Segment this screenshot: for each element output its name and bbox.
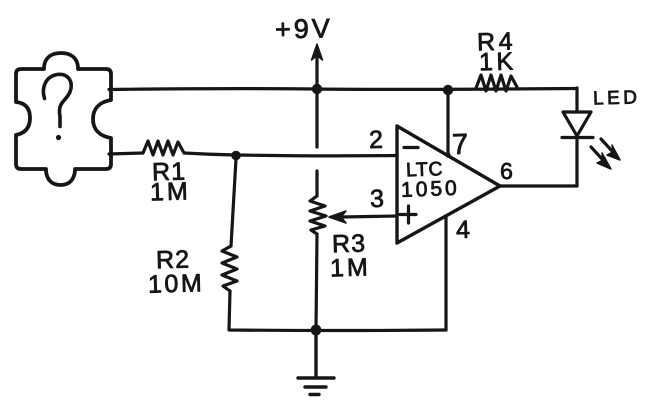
sensor U? (mystery puzzle-piece)	[16, 53, 111, 185]
svg-text:1M: 1M	[330, 253, 371, 282]
potentiometer R3 (element)	[310, 196, 326, 234]
resistor R2	[222, 246, 237, 291]
wire: LED cathode down to pin 6 wire	[575, 139, 578, 186]
node: ground junction	[311, 325, 322, 336]
svg-text:7: 7	[452, 129, 469, 161]
node: pin 7 junction on top rail	[443, 85, 453, 95]
wire: pin 7 supply from top rail	[446, 93, 449, 155]
ground symbol	[298, 334, 334, 395]
wire: pin 4 down to ground rail	[444, 216, 447, 330]
wire: sensor bottom terminal to R1	[109, 153, 143, 154]
LED cathode bar	[562, 136, 593, 139]
resistor R1	[143, 141, 184, 155]
wire: +9V rail down toward R3 (lower segment)	[315, 171, 318, 196]
node: pin 7 meets op-amp edge	[445, 152, 450, 157]
svg-text:10M: 10M	[148, 269, 205, 298]
wire: R1 to op-amp inverting input (pin 2)	[184, 153, 397, 156]
wire: top rail corner down to LED anode	[575, 88, 578, 112]
svg-text:+9V: +9V	[275, 13, 333, 44]
op-amp inverting marker (-)	[404, 146, 418, 149]
potentiometer R3 wiper arrow to pin 3	[329, 211, 397, 223]
node: R1 / R2 junction	[231, 151, 241, 161]
wire: pin 6 output to LED cathode branch	[500, 184, 577, 187]
svg-text:1M: 1M	[150, 177, 191, 206]
node: +9V junction on top rail	[312, 84, 322, 94]
svg-text:2: 2	[369, 126, 384, 154]
svg-text:LED: LED	[593, 87, 641, 109]
sensor question mark	[43, 74, 71, 140]
svg-text:4: 4	[456, 216, 471, 244]
svg-text:1K: 1K	[479, 47, 517, 76]
wire: junction down to R2	[231, 159, 236, 246]
svg-text:6: 6	[500, 158, 513, 184]
svg-text:3: 3	[370, 185, 385, 213]
op-amp U1 LTC1050 (triangle)	[397, 126, 500, 243]
LED emission arrow (upper)	[601, 139, 620, 160]
wire: sensor top terminal to LED branch (top rail)	[109, 89, 577, 90]
resistor R4	[476, 75, 517, 91]
LED emission arrow (lower)	[591, 147, 611, 169]
wire: R3 bottom to ground rail	[316, 234, 317, 330]
svg-text:1050: 1050	[401, 177, 460, 202]
wire: R2 down to ground rail	[229, 291, 446, 331]
op-amp non-inverting marker (+)	[400, 206, 416, 223]
+9V supply arrow	[312, 44, 323, 88]
wire: +9V rail down toward R3 (upper segment, hops signal wire)	[315, 93, 318, 147]
LED D1 (diode triangle)	[563, 112, 591, 136]
